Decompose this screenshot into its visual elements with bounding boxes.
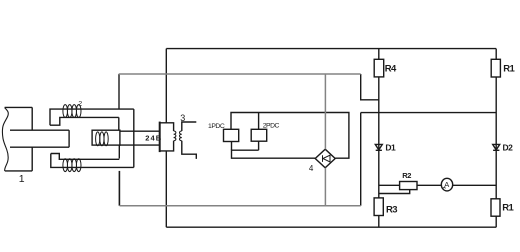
wire 2PDC top bbox=[258, 113, 260, 130]
enclosure bottom rail bbox=[166, 226, 496, 228]
svg-text:D2: D2 bbox=[503, 142, 514, 152]
transformer T secondary bbox=[180, 122, 197, 159]
shaft 1 body bbox=[2, 107, 32, 170]
svg-text:1: 1 bbox=[19, 173, 25, 185]
movable core bbox=[92, 130, 120, 146]
wire core to terminal top bbox=[120, 130, 160, 132]
wire rectifier input top bbox=[324, 74, 326, 149]
enclosure left edge bbox=[165, 49, 167, 123]
wire R2 to meter bbox=[417, 184, 441, 186]
rectifier 4 diamond bbox=[315, 149, 335, 168]
resistor R3 bottom left bbox=[374, 198, 383, 216]
wire rectifier output bottom bbox=[324, 168, 326, 206]
bridge right branch bbox=[495, 49, 497, 228]
resistor R4 bbox=[374, 59, 384, 77]
wire supply top bbox=[119, 73, 361, 75]
bridge mid rail bbox=[361, 112, 497, 114]
wire core to terminal bottom bbox=[120, 144, 160, 146]
coil housing right wall bbox=[133, 109, 135, 167]
svg-text:2PDC: 2PDC bbox=[263, 123, 280, 130]
resistor R1 bottom right bbox=[491, 199, 500, 216]
winding 2 upper bbox=[63, 105, 81, 118]
demodulator 1PDC box bbox=[224, 129, 239, 141]
winding 2 lower bbox=[63, 159, 81, 172]
svg-text:24B: 24B bbox=[145, 133, 162, 142]
link wire notch bbox=[361, 74, 379, 100]
wire join PDC bottoms bbox=[232, 150, 316, 158]
wire R2 tap bbox=[379, 190, 410, 194]
svg-text:R4: R4 bbox=[385, 63, 397, 74]
potentiometer R2 bbox=[400, 182, 417, 190]
coil housing bottom wall bbox=[51, 154, 134, 168]
meter G bbox=[441, 178, 452, 191]
svg-text:R1: R1 bbox=[502, 203, 514, 214]
svg-text:1PDC: 1PDC bbox=[208, 123, 225, 130]
svg-text:R2: R2 bbox=[402, 171, 411, 180]
diode D2 bbox=[493, 144, 500, 150]
demodulator 2PDC box bbox=[251, 129, 267, 141]
transformer T primary bbox=[160, 123, 176, 151]
coil housing top wall bbox=[50, 109, 134, 125]
wire mid vertical bbox=[360, 113, 362, 206]
wire core to bottom wall bbox=[118, 145, 120, 158]
wire meter to right branch bbox=[453, 184, 497, 186]
shaft rod bbox=[10, 130, 69, 147]
diode D1 bbox=[375, 144, 382, 150]
wire core to top wall bbox=[118, 117, 120, 130]
wire 1PDC bottom bbox=[231, 142, 233, 151]
svg-text:2: 2 bbox=[78, 101, 82, 108]
wire 2PDC bottom bbox=[258, 141, 260, 150]
svg-text:4: 4 bbox=[309, 164, 314, 173]
terminal bar bbox=[159, 122, 161, 153]
wire housing bottom to bus bbox=[118, 171, 120, 206]
resistor R1 top right bbox=[491, 59, 500, 77]
amplifier block frame top bbox=[231, 113, 349, 159]
wire supply bottom bbox=[120, 205, 361, 207]
svg-text:D1: D1 bbox=[385, 142, 396, 152]
wire housing top to bus bbox=[118, 74, 120, 109]
wire R2 left bbox=[379, 184, 400, 186]
svg-text:3: 3 bbox=[180, 113, 185, 123]
svg-text:R1: R1 bbox=[503, 64, 515, 75]
bridge left branch bbox=[378, 49, 380, 228]
svg-text:R3: R3 bbox=[386, 204, 397, 215]
enclosure top rail bbox=[166, 48, 496, 50]
